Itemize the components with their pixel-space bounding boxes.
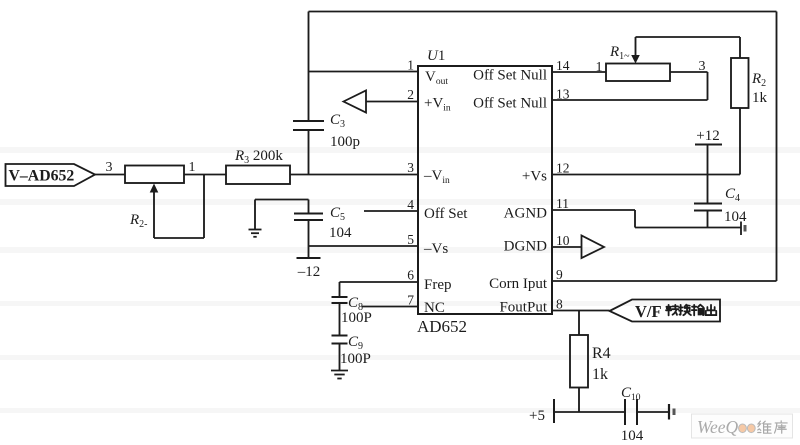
svg-text:+5: +5 [529,408,545,424]
svg-text:7: 7 [407,293,414,308]
node V-AD652 input flag [6,164,96,186]
wire C5 bottom to -12 [308,220,310,258]
wire pin12 +Vs [552,174,740,176]
svg-text:AD652: AD652 [417,317,467,336]
potentiometer R2- body [125,166,184,184]
svg-text:100P: 100P [341,310,372,326]
power -12 terminal [297,257,321,259]
svg-text:6: 6 [407,268,414,283]
wire C3 lower to main input [308,130,310,175]
power +5 terminal [553,399,555,423]
svg-text:1: 1 [407,58,414,73]
svg-text:10: 10 [556,233,570,248]
wire +5 rail [554,411,625,413]
wire pin11 AGND run [552,210,741,228]
svg-text:+Vs: +Vs [522,169,547,185]
potentiometer R1 wiper arrow [636,37,741,58]
ground (AGND bar) [741,222,747,236]
svg-text:2: 2 [407,87,414,102]
svg-text:11: 11 [556,196,569,211]
svg-text:R4: R4 [592,345,611,362]
svg-text:100p: 100p [330,134,360,150]
wire C9 to ground [339,344,341,371]
svg-text:AGND: AGND [504,206,547,222]
ground (right of C10) [669,404,676,420]
capacitor C5 [294,214,323,221]
svg-text:104: 104 [621,428,644,444]
svg-text:3: 3 [407,160,414,175]
ground (left of C5) [249,230,262,237]
svg-text:Off Set Null: Off Set Null [473,96,547,112]
resistor R4 [570,335,588,388]
wire R1 right to pin13 [552,72,708,100]
arrow on pin2 wire [344,91,367,113]
watermark WeeQoo [692,414,793,438]
wire C4 bottom [707,211,709,228]
potentiometer R1 body [606,64,670,82]
svg-text:5: 5 [407,232,414,247]
capacitor C3 [293,121,324,130]
wire pin6 [340,282,419,297]
wire pin9 to outer-loop [552,280,777,282]
wire pin14 to R1 [552,71,606,73]
svg-text:V/F: V/F [635,302,662,321]
svg-text:Off Set Null: Off Set Null [473,68,547,84]
svg-text:Corn Iput: Corn Iput [489,276,548,292]
svg-text:104: 104 [329,225,352,241]
svg-text:1k: 1k [592,366,608,383]
wire outer-loop right [776,12,778,282]
wire C10 to ground [637,411,669,413]
wire pin8 junction to R4 [578,311,580,336]
ground (below C9) [331,371,348,379]
capacitor C10 [625,399,637,425]
wire outer-loop top [309,11,777,13]
svg-text:Off Set: Off Set [424,206,468,222]
svg-text:1: 1 [189,160,196,175]
wire pin2 [366,101,418,103]
wire pot to R3 [184,174,226,176]
wire pin1 [309,71,419,73]
svg-text:1: 1 [596,60,603,75]
capacitor C9 [332,336,348,344]
svg-text:3: 3 [106,160,113,175]
svg-text:8: 8 [556,297,563,312]
wire input flag to R2- pot [95,174,125,176]
svg-text:NC: NC [424,300,445,316]
buffer triangle (DGND) [582,236,605,259]
capacitor C4 [694,204,722,211]
wire outer-loop left (to C3) [308,12,310,122]
node V/F output flag [610,300,721,322]
svg-text:9: 9 [556,267,563,282]
svg-text:–Vs: –Vs [423,241,448,257]
svg-text:WeeQ: WeeQ [697,417,739,437]
svg-text:R3 200k: R3 200k [234,148,283,166]
capacitor C8 [332,297,348,303]
svg-text:Frep: Frep [424,277,452,293]
svg-text:3: 3 [699,59,706,74]
svg-text:DGND: DGND [504,239,547,255]
wire +12 to C4 [707,145,709,204]
svg-text:4: 4 [407,197,414,212]
svg-text:+12: +12 [696,128,719,144]
svg-text:FoutPut: FoutPut [499,300,547,316]
wire pin8 FoutPut [552,310,610,312]
wire pin4 stub [364,210,418,212]
resistor R3 [226,166,290,185]
resistor R2 [731,58,749,108]
wire C8 to C9 [339,303,341,336]
svg-text:104: 104 [724,209,747,225]
svg-text:1k: 1k [752,90,768,106]
wire R2 bottom to +Vs [739,108,741,175]
wire pin7 stub [362,306,418,308]
potentiometer R2- wiper arrow [154,175,204,239]
svg-text:100P: 100P [340,351,371,367]
svg-text:12: 12 [556,161,570,176]
power +12 terminal [695,144,722,146]
svg-text:14: 14 [556,58,570,73]
wire pin10 [552,246,582,248]
svg-text:U1: U1 [427,48,445,64]
wire R4 to +5 rail [578,388,580,413]
wire C5 top branch [255,200,309,230]
svg-text:–12: –12 [297,264,321,280]
op-amp U1 AD652 body [418,66,552,314]
svg-text:V–AD652: V–AD652 [9,168,75,185]
wire pin5 [309,245,419,247]
wire R3 to pin3 [290,174,418,176]
